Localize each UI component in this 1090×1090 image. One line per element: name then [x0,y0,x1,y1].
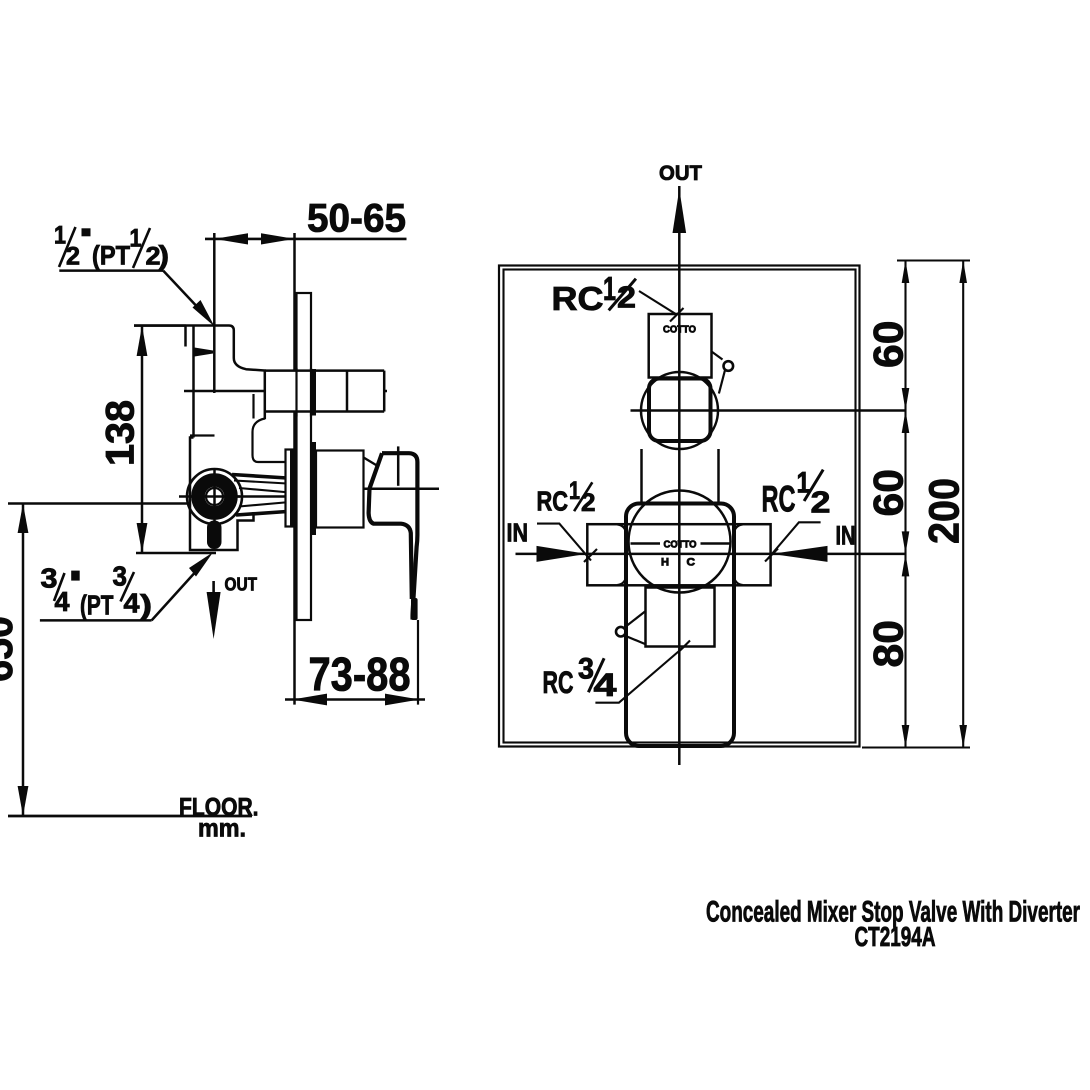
leader RC34 bottom [595,647,684,703]
svg-text:1: 1 [569,477,580,505]
svg-text:COTTO: COTTO [663,325,696,336]
handle lever outline [382,453,417,619]
svg-text:(PT: (PT [92,241,130,271]
svg-text:650: 650 [0,616,21,682]
dimension 73-88 line [285,698,425,701]
wire top pipe centerline [184,390,387,393]
main valve circle [629,491,731,593]
neck lines [640,449,643,504]
svg-text:RC: RC [537,485,569,516]
valve seat dark ring [198,480,231,513]
svg-text:IN: IN [836,521,856,551]
dimension extension bottom [862,746,970,748]
valve body middle outline [190,434,215,436]
diverter top port rect [649,314,712,378]
svg-text:): ) [159,241,170,271]
chain arrows [902,261,910,284]
svg-text:C: C [687,557,696,569]
outlet stub down [207,521,222,550]
bottom port rect [646,588,715,647]
cartridge sleeve [316,451,364,528]
svg-text:mm.: mm. [198,815,246,843]
svg-text:80: 80 [865,620,912,668]
svg-text:OUT: OUT [659,162,702,185]
valve seat outer circle [187,469,242,524]
svg-text:RC: RC [762,479,796,520]
svg-text:(PT: (PT [80,590,114,621]
svg-text:2: 2 [811,484,831,519]
leader RC12 left [537,524,591,561]
svg-text:CT2194A: CT2194A [855,921,936,952]
svg-text:IN: IN [507,518,529,548]
dimension 138 vertical line [141,326,144,553]
main body bold rounded rect [626,504,734,747]
wire wall surface line [293,233,296,705]
label leader 3/4 PT [40,619,152,622]
OUT arrow up [673,189,687,233]
svg-text:2: 2 [581,489,596,517]
wall plate outer rect [499,266,860,747]
floor line [8,815,252,818]
svg-text:): ) [140,589,152,620]
diverter ear tab [712,352,723,360]
svg-text:200: 200 [921,478,969,544]
dimension 50-65 line [205,238,407,241]
diverter knob rounded square [649,379,711,442]
dimension 650 vertical line [22,504,25,817]
label leader 1/2 PT [59,269,163,272]
svg-text:1: 1 [603,270,616,307]
leader RC12 top [639,291,677,315]
IN line [516,553,907,556]
wire handle axis centerline [300,487,439,490]
svg-text:OUT: OUT [225,575,258,595]
dimension extension top [897,259,970,261]
svg-text:60: 60 [865,321,912,369]
top pipe through wall [265,371,384,412]
escutcheon ring edge-on front [312,442,317,535]
spout side view [232,475,287,479]
svg-text:H: H [661,557,669,569]
valve body upper block [134,326,266,371]
dimension line 200 [962,261,964,748]
node hub cross [213,469,216,523]
svg-text:73-88: 73-88 [309,648,411,701]
svg-text:RC: RC [543,664,574,700]
wall plate inner rect [504,270,856,743]
svg-text:3: 3 [578,652,594,685]
wire diverter axis line [631,409,907,412]
escutcheon plate edge-on [297,293,312,620]
pipe lower bracket [253,419,286,463]
IN arrow left [537,546,587,562]
wire vertical centerline [678,186,681,765]
valve seat hub [206,488,223,505]
svg-text:1: 1 [130,224,142,252]
fillet arcs [618,525,627,534]
svg-text:COTTO: COTTO [664,540,697,551]
svg-text:60: 60 [865,469,912,517]
svg-text:1: 1 [54,221,66,249]
diverter circle [641,372,718,449]
crosspiece inlet rect [587,524,770,585]
node centerline-650-extension [8,502,190,505]
node plate crossing pipe [295,368,297,417]
OUT down arrow left view [212,581,215,594]
logo flank dashes [631,542,661,545]
leader RC12 right [768,522,821,558]
IN arrow right [772,546,828,562]
svg-text:RC: RC [552,280,604,317]
svg-text:50-65: 50-65 [307,197,406,241]
bottom ear tab [625,612,646,628]
dimension chain line 60-60-80 [904,261,906,748]
spout flare at wall [286,450,295,527]
svg-text:138: 138 [99,400,143,466]
wire valve axis centerline [179,495,298,498]
